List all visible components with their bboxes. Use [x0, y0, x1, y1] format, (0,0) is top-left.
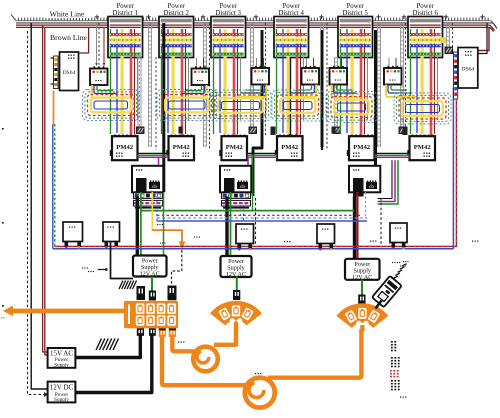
PM42 #6 — [407, 135, 435, 161]
yellow-orange wire booster1 to bus arrow — [151, 192, 153, 230]
PM42#6 drops to booster3 — [378, 160, 396, 201]
green bus — [141, 210, 355, 212]
dashed drops — [98, 23, 100, 66]
detector box 5 — [330, 58, 348, 85]
black dashed bus — [157, 214, 360, 216]
PM42 #4 — [275, 135, 303, 161]
booster3 to supply3 wires — [353, 197, 356, 259]
panel plugs — [137, 328, 144, 336]
svg-text:Brown Line: Brown Line — [50, 33, 88, 42]
svg-text:15V AC: 15V AC — [50, 349, 73, 357]
detector box 3 — [252, 58, 270, 85]
heavy feeder to booster3 — [374, 30, 377, 192]
svg-text:PM42: PM42 — [414, 144, 432, 151]
blue bus — [53, 248, 454, 250]
throttle — [372, 276, 402, 307]
maroon bus — [55, 245, 457, 247]
svg-text:cb: cb — [240, 185, 245, 190]
svg-text:12V AC: 12V AC — [140, 271, 160, 278]
bundle district 3 — [214, 57, 241, 136]
spare cable hatch — [96, 339, 119, 351]
yellow tab at district 6 — [441, 37, 447, 43]
UP5 panel 2 — [103, 222, 120, 247]
bundle district 1 — [111, 57, 138, 136]
wire white-line bus — [11, 15, 497, 29]
booster 1 — [132, 166, 163, 209]
green into supply1 right — [163, 192, 165, 256]
orange cable A with coil — [172, 336, 197, 351]
protection zone 6 — [394, 93, 451, 124]
PM42 #2 — [166, 135, 194, 161]
legend marks — [390, 341, 406, 398]
power supply 12VAC #3 — [345, 259, 380, 281]
plugs near supply1 — [137, 286, 146, 300]
wire 12VDC to panel — [75, 335, 151, 393]
wire loops under detectors — [92, 85, 122, 98]
magenta drop pair2 — [247, 157, 249, 166]
power district 5 box — [338, 3, 373, 57]
power supply 12VAC #1 — [133, 256, 167, 278]
booster 2 — [220, 166, 251, 209]
wire brown-line left drop — [43, 25, 48, 352]
connector blobs — [271, 127, 276, 136]
UP5 panel 4 — [317, 224, 335, 249]
blue solid bus — [157, 220, 367, 222]
svg-text:Supply: Supply — [54, 397, 69, 403]
svg-text:Power: Power — [347, 3, 365, 10]
booster1 to supply1 wires — [136, 197, 139, 256]
detector box 6 — [384, 58, 402, 85]
UP5 panel 3 — [236, 224, 254, 249]
svg-text:Power: Power — [283, 3, 301, 10]
heavy feeder district4 — [289, 57, 291, 136]
PM42 pair wiring — [138, 152, 169, 154]
svg-text:PM42: PM42 — [353, 144, 371, 151]
DS64 right — [454, 48, 478, 100]
heavy feeder district2 to booster1 — [162, 23, 165, 192]
right riser to DS64R — [455, 88, 457, 246]
heavy feeder to booster2 — [253, 30, 262, 196]
12V DC supply — [48, 382, 76, 403]
PM42 #5 — [347, 135, 375, 161]
UP5 panel 1 — [63, 222, 83, 247]
PM42 #1 — [110, 135, 138, 161]
orange cable B with coil — [162, 337, 247, 385]
booster2 to supply2 wires — [225, 197, 228, 257]
fan2 stem — [234, 321, 238, 347]
protection zone 3 — [210, 90, 271, 121]
fan3 stem — [360, 325, 364, 331]
svg-text:cb: cb — [152, 185, 157, 190]
PM42 #3 — [219, 135, 247, 161]
booster3 blue drop — [365, 192, 367, 218]
svg-text:PM42: PM42 — [173, 144, 191, 151]
protection zone 5 — [326, 92, 377, 123]
svg-text:PM42: PM42 — [281, 144, 299, 151]
small marks — [157, 224, 158, 225]
power district 1 box — [108, 3, 143, 57]
booster 3 — [349, 166, 380, 197]
supply2 output — [236, 277, 238, 292]
protection zone 1 — [83, 90, 140, 121]
wire 15VAC to panel — [75, 335, 140, 358]
brown feed to DS64 left — [79, 27, 89, 53]
15V AC supply — [48, 348, 76, 368]
wire brown-line bus — [16, 24, 490, 26]
svg-text:DS64: DS64 — [461, 67, 474, 73]
svg-text:Supply: Supply — [54, 362, 69, 368]
DS64 left — [51, 52, 79, 91]
power district 3 box — [211, 3, 246, 57]
svg-text:cb: cb — [369, 185, 374, 190]
label Brown Line — [48, 32, 90, 42]
brown feed to DS64 right — [478, 27, 489, 50]
red dashes over maroon bus — [55, 245, 457, 247]
detector box 4 — [302, 58, 320, 85]
svg-text:PM42: PM42 — [226, 144, 244, 151]
loconet ribbon cables — [137, 57, 145, 134]
svg-text:Power: Power — [417, 3, 435, 10]
power district 6 box — [408, 3, 443, 57]
bundle district 6 — [411, 57, 438, 136]
magenta drop pair1 — [158, 157, 160, 166]
svg-text:White Line: White Line — [50, 10, 85, 19]
svg-text:12V DC: 12V DC — [50, 383, 74, 391]
protection zone 4 — [272, 90, 324, 121]
loconet feed arrow — [3, 306, 13, 317]
heavy feeder mid — [321, 30, 323, 150]
throttle cable — [393, 261, 408, 279]
svg-text:PM42: PM42 — [116, 144, 134, 151]
UP5#2 stem cable — [111, 242, 134, 279]
power supply 12VAC #2 — [221, 256, 252, 278]
wire white-line left drop (dashed) — [28, 31, 45, 395]
label White Line — [44, 9, 90, 18]
dashed wire from bus to plug — [172, 250, 182, 284]
power district 4 box — [274, 3, 309, 57]
svg-text:Power: Power — [168, 3, 186, 10]
bundle district 4 — [277, 57, 304, 136]
svg-text:Power: Power — [220, 3, 238, 10]
green tee pair2 to green bus — [252, 155, 254, 210]
UP5 feet marks — [65, 246, 67, 248]
svg-text:DS64: DS64 — [63, 70, 76, 76]
UP5 panel strip (orange) — [124, 301, 178, 328]
feeds into detector box1 — [96, 23, 98, 64]
wire white-line left drop (solid) — [31, 23, 47, 389]
power district 2 box — [159, 3, 194, 57]
detector box 1 — [90, 66, 108, 85]
supply3 output — [361, 280, 363, 296]
protection zone 2 — [157, 90, 217, 121]
svg-text:Power: Power — [117, 3, 135, 10]
dashed returns to bus — [255, 198, 257, 246]
left bundle riser — [52, 124, 54, 249]
tick marks on white line — [95, 16, 99, 18]
blue drops under booster2 — [240, 196, 242, 218]
bundle district 5 — [341, 57, 368, 136]
supply1 output — [151, 277, 153, 293]
detector box 2 — [192, 58, 210, 85]
UP5 panel 5 — [390, 223, 407, 248]
throttle plug link — [376, 301, 382, 309]
fan panel 2 — [210, 301, 262, 326]
blue dashed bus — [157, 217, 367, 219]
bundle district 2 — [162, 57, 189, 136]
fan panel 3 — [336, 303, 388, 328]
